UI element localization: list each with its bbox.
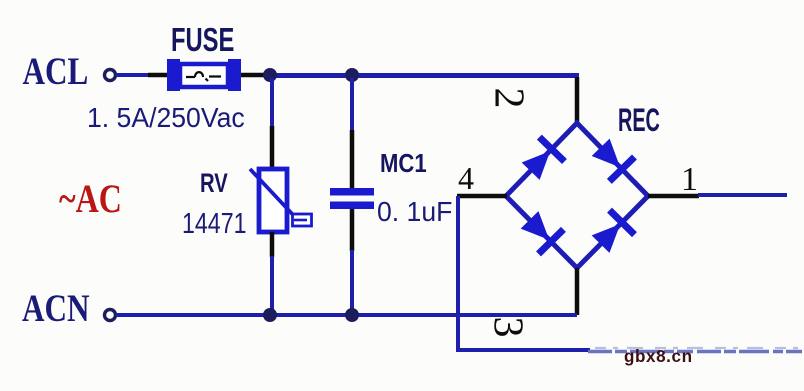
terminal ACL — [105, 70, 116, 81]
junction node B (top of MC1) — [345, 68, 359, 82]
svg-text:14471: 14471 — [182, 206, 246, 239]
wire pin4 output bottom horizontal (blue) — [456, 348, 590, 352]
junction bottom of MC1 — [345, 308, 359, 322]
capacitor MC1 value 0.1uF — [377, 195, 452, 227]
node ACL label — [23, 50, 89, 93]
wire top rail (blue) — [268, 73, 579, 78]
junction node A (top of RV) — [263, 68, 277, 82]
wire fuse to node A (black) — [241, 73, 266, 78]
svg-text:REC: REC — [618, 102, 660, 138]
terminal ACN — [105, 310, 116, 321]
svg-text:2: 2 — [485, 88, 531, 109]
wire pin4 output vertical (blue) — [456, 196, 460, 352]
svg-text:ACN: ACN — [22, 287, 90, 330]
watermark gbx8.cn — [624, 346, 693, 367]
wire ACL terminal to fuse (blue segment) — [116, 73, 149, 77]
svg-text:RV: RV — [200, 168, 228, 199]
svg-text:1: 1 — [681, 161, 698, 198]
capacitor MC1 — [330, 188, 374, 209]
fuse F1 — [167, 59, 241, 91]
diode D4 (pin3 to pin1, bottom-right edge) — [588, 208, 637, 257]
svg-text:3: 3 — [484, 317, 530, 338]
svg-text:1. 5A/250Vac: 1. 5A/250Vac — [87, 101, 245, 133]
wire ACN rail (blue) — [116, 313, 577, 317]
wire MC1 branch upper (blue then black) — [350, 78, 354, 131]
watermark dashed line — [588, 348, 804, 352]
varistor RV value 14471 — [182, 206, 246, 239]
pin 3 label (rotated) — [484, 317, 530, 338]
fuse FUSE label — [171, 22, 234, 59]
diode D1 (pin4 to pin2, top-left edge) — [518, 135, 567, 184]
svg-text:~AC: ~AC — [59, 177, 122, 221]
diode D3 (pin4 to pin3, bottom-left edge) — [517, 208, 566, 257]
junction bottom of RV — [263, 308, 277, 322]
svg-text:ACL: ACL — [23, 50, 89, 93]
wire RV branch upper (blue then black) — [270, 78, 274, 127]
svg-text:gbx8.cn: gbx8.cn — [624, 346, 693, 367]
capacitor MC1 label — [380, 149, 427, 178]
wire RV branch lower (black then blue) — [270, 232, 275, 257]
node ACN label — [22, 287, 90, 330]
varistor RV label — [200, 168, 228, 199]
label ~AC — [59, 177, 122, 221]
bridge rectifier REC diamond — [506, 123, 648, 268]
svg-text:MC1: MC1 — [380, 149, 427, 178]
wire MC1 branch lower (black then blue) — [350, 209, 355, 251]
wire bridge pin1 (black) — [648, 194, 699, 199]
svg-text:0. 1uF: 0. 1uF — [377, 195, 452, 227]
pin 2 label (rotated) — [485, 88, 531, 109]
svg-text:FUSE: FUSE — [171, 22, 234, 59]
bridge rectifier REC label — [618, 102, 660, 138]
diode D2 (pin2 to pin1, top-right edge) — [588, 135, 637, 184]
svg-text:4: 4 — [458, 160, 474, 196]
wire top rail corner to bridge pin2 (black stub) — [575, 77, 580, 124]
wire bridge pin4 (black) — [457, 194, 507, 199]
fuse value 1.5A/250Vac — [87, 101, 245, 133]
wire to fuse (black segment) — [148, 73, 168, 78]
wire bridge pin3 (black stub) — [575, 268, 580, 315]
wire pin1 output (blue) — [698, 193, 787, 197]
varistor RV — [250, 169, 312, 232]
